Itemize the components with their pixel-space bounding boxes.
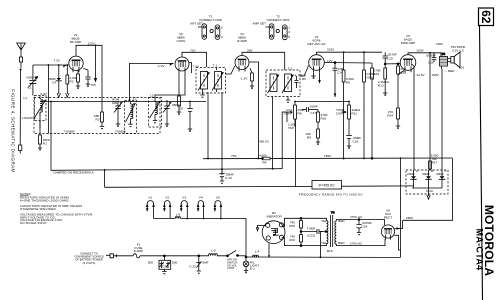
- svg-text:C24: C24: [362, 225, 368, 229]
- V5 grid resistors: [371, 63, 388, 159]
- svg-text:R6: R6: [346, 81, 350, 85]
- heater V2: [164, 201, 170, 219]
- wire T3 sec down to filter: [441, 69, 443, 170]
- wire V4 plate 215V line: [317, 52, 383, 54]
- svg-text:R12: R12: [374, 72, 380, 76]
- svg-text:CONNECT-ONS: CONNECT-ONS: [267, 18, 290, 22]
- connector ant plug: [19, 145, 22, 154]
- wire B+ right loop: [400, 158, 402, 257]
- svg-text:NO SIGNAL INPUT: NO SIGNAL INPUT: [20, 221, 47, 225]
- wire long left vertical to B-: [50, 102, 52, 171]
- svg-text:3: 3: [288, 30, 290, 34]
- svg-text:.5MF: .5MF: [202, 260, 209, 264]
- wire screen drop 75V: [95, 45, 97, 79]
- svg-text:OTHERWISE SPECIFIED.: OTHERWISE SPECIFIED.: [20, 207, 57, 211]
- svg-text:L-4: L-4: [255, 250, 260, 254]
- wire arrow to V1 grid: [63, 65, 67, 68]
- filament heaters V1-V5: [146, 201, 222, 219]
- wire V3 plate to T2: [242, 52, 285, 70]
- svg-text:DET-AVC-AF: DET-AVC-AF: [307, 42, 325, 46]
- svg-text:-12.5V: -12.5V: [416, 73, 426, 77]
- svg-text:40MF: 40MF: [436, 172, 444, 176]
- wire T1 grounds: [200, 89, 204, 99]
- svg-text:CONV: CONV: [177, 39, 187, 43]
- capacitor C22: [196, 255, 201, 275]
- wire B- damper line: [51, 169, 283, 171]
- svg-text:270V-AC: 270V-AC: [350, 215, 363, 219]
- svg-text:R17: R17: [432, 161, 438, 165]
- svg-text:T 1: T 1: [213, 63, 218, 67]
- node candohm to screen bus: [363, 158, 365, 160]
- wire antenna lead down: [19, 70, 21, 146]
- svg-text:215V: 215V: [327, 48, 335, 52]
- svg-text:R5: R5: [302, 77, 306, 81]
- svg-text:28V: 28V: [247, 48, 253, 52]
- svg-text:T3: T3: [442, 52, 446, 56]
- svg-text:R14: R14: [387, 114, 393, 118]
- wire B+ 250V vertical to filter: [429, 53, 431, 170]
- svg-text:V3: V3: [182, 196, 186, 200]
- wire V5 screen drop to filter: [413, 66, 415, 170]
- svg-text:C19: C19: [387, 56, 393, 60]
- svg-text:FIGURE 4. SCHEMATIC DIAGRAM: FIGURE 4. SCHEMATIC DIAGRAM: [11, 89, 16, 172]
- svg-text:455 KC: 455 KC: [259, 140, 270, 144]
- speaker LS1: [448, 52, 461, 68]
- svg-text:B: B: [431, 169, 433, 173]
- svg-text:20MF: 20MF: [407, 172, 415, 176]
- svg-text:155V: 155V: [324, 154, 332, 158]
- wire T4 secondary top to V6: [340, 220, 385, 226]
- svg-text:C16: C16: [428, 61, 434, 65]
- wire T2 bottoms down: [272, 97, 274, 169]
- svg-text:C18: C18: [353, 140, 359, 144]
- wire V2 screen stub: [189, 63, 192, 74]
- wire 75V-155V screen bus: [203, 157, 453, 160]
- svg-text:YEL: YEL: [321, 241, 327, 245]
- wire V6 output 250V: [395, 220, 403, 228]
- wire V2 plate to T1: [182, 52, 207, 67]
- V5 cathode resistor R14: [396, 71, 404, 129]
- svg-text:8 AMP: 8 AMP: [134, 249, 143, 253]
- wire V2 grid line: [130, 63, 174, 100]
- svg-text:V1: V1: [148, 196, 152, 200]
- svg-text:R3: R3: [96, 118, 100, 122]
- svg-text:V4: V4: [199, 196, 203, 200]
- wire bottom bus to T4: [246, 256, 401, 258]
- svg-text:AMP SET: AMP SET: [253, 22, 267, 26]
- battery connector text: [74, 252, 104, 265]
- svg-text:RF AMP: RF AMP: [70, 40, 82, 44]
- svg-text:TAP: TAP: [288, 126, 294, 130]
- resistor R1: [39, 121, 42, 149]
- svg-text:12V: 12V: [327, 59, 333, 63]
- svg-text:R8: R8: [298, 112, 302, 116]
- svg-text:C-13: C-13: [225, 176, 232, 180]
- power transformer T4: [320, 211, 340, 258]
- capacitor C4: [56, 65, 62, 97]
- svg-text:R10: R10: [321, 117, 327, 121]
- resistor candohm: [363, 52, 366, 158]
- wire T4 secondary bottom to V6: [340, 239, 385, 246]
- spark plate capacitors: [156, 255, 197, 276]
- svg-text:PWR AMP: PWR AMP: [401, 41, 416, 45]
- svg-text:CONT: CONT: [227, 266, 235, 270]
- node grid junctions: [48, 64, 50, 66]
- svg-text:R2: R2: [70, 80, 74, 84]
- svg-text:→ RED: → RED: [444, 69, 455, 73]
- output transformer T3: [440, 52, 448, 69]
- svg-text:R15: R15: [289, 224, 295, 228]
- svg-text:4: 4: [221, 35, 223, 39]
- svg-text:DAMPED ON RECEIVERS A: DAMPED ON RECEIVERS A: [54, 171, 95, 175]
- svg-text:BLK: BLK: [327, 249, 334, 253]
- wire audio return riser: [104, 170, 106, 188]
- wire V5 plate 200V to T3: [408, 53, 441, 56]
- svg-text:.002MF: .002MF: [426, 54, 437, 58]
- svg-text:RECT: RECT: [384, 216, 393, 220]
- svg-text:R11: R11: [352, 112, 358, 116]
- V4 diode output to volume: [324, 62, 372, 98]
- NOTES block: [20, 192, 93, 225]
- svg-text:L-5: L-5: [211, 249, 216, 253]
- capacitor cathode V1: [84, 69, 91, 87]
- capacitor C13 on 222 drop: [219, 169, 225, 185]
- svg-text:7.5V: 7.5V: [193, 65, 200, 69]
- capacitor C16: [187, 102, 193, 132]
- svg-text:C4: C4: [52, 81, 56, 85]
- svg-text:500: 500: [148, 261, 153, 265]
- svg-text:V5: V5: [216, 196, 220, 200]
- wire vol line: [295, 101, 349, 103]
- svg-text:NOM: NOM: [27, 76, 35, 80]
- trimmer cap osc2: [163, 100, 171, 126]
- svg-text:75V: 75V: [231, 154, 237, 158]
- wire V2 osc grid to L3: [155, 73, 185, 99]
- svg-text:72V: 72V: [190, 48, 196, 52]
- svg-text:C1: C1: [28, 86, 32, 90]
- wire vol wiper down: [282, 112, 287, 169]
- svg-text:LS1: LS1: [459, 66, 465, 70]
- svg-text:-1.2V: -1.2V: [240, 77, 248, 81]
- wire AVC bus: [40, 101, 206, 103]
- vibrator bottom to bus: [268, 243, 270, 256]
- svg-text:FREQUENCY RANGE 540 TO 1600 KC: FREQUENCY RANGE 540 TO 1600 KC: [299, 192, 364, 196]
- svg-text:R16: R16: [289, 238, 295, 242]
- svg-text:YEL: YEL: [321, 219, 327, 223]
- tube V4 6CR6 DET-AVC-AF: [307, 35, 325, 73]
- svg-text:VIBRATOR: VIBRATOR: [266, 215, 282, 219]
- svg-text:R13: R13: [378, 84, 384, 88]
- IF transformer T1: [196, 63, 226, 93]
- heater V5: [215, 201, 221, 219]
- svg-text:(6 VOLTS): (6 VOLTS): [83, 261, 96, 265]
- resistor 4,600 R4 in screen bus: [262, 157, 270, 160]
- tube V1 6BQ6 RF AMP: [69, 33, 83, 73]
- svg-text:230V: 230V: [436, 42, 444, 46]
- variable capacitor C1: [28, 65, 38, 96]
- tube V2 6BE6 CONV: [175, 32, 189, 73]
- svg-text:L2: L2: [133, 97, 137, 101]
- power plug: [106, 254, 117, 258]
- svg-text:T4: T4: [331, 211, 335, 215]
- capacitor C17 coupling: [302, 107, 318, 112]
- svg-text:C21: C21: [162, 264, 168, 268]
- resistor 15K R9: [316, 126, 320, 144]
- heater V3: [181, 201, 187, 219]
- pilot light E1: [243, 256, 249, 273]
- trimmer cap osc: [114, 102, 122, 127]
- svg-text:40MF: 40MF: [422, 172, 430, 176]
- wire V6 heater down to bus: [394, 235, 400, 250]
- volume control R8: [287, 102, 296, 128]
- capacitor C23: [301, 229, 323, 234]
- oscillator coil L2 in dashed box: [125, 101, 137, 134]
- capacitor tone C18: [346, 136, 352, 149]
- wire T1 sec to V3 grid: [217, 66, 235, 92]
- svg-text:R4: R4: [263, 160, 267, 164]
- svg-text:C17: C17: [311, 111, 317, 115]
- svg-text:.01MF: .01MF: [309, 105, 318, 109]
- TUNER dashed box: [34, 98, 160, 134]
- tube V3 6BD6 IF AMP: [235, 32, 249, 72]
- svg-text:500: 500: [172, 261, 177, 265]
- wire V1 cathode leg: [77, 71, 79, 75]
- buffer resistors R15 R16: [282, 217, 323, 246]
- svg-text:C-22: C-22: [189, 265, 196, 269]
- svg-text:250V: 250V: [406, 216, 414, 220]
- svg-text:C-20: C-20: [426, 189, 433, 193]
- svg-text:MA-CTA4: MA-CTA4: [475, 229, 485, 271]
- wire audio return box line: [105, 186, 414, 187]
- heater V1: [147, 201, 153, 219]
- svg-text:270V-AC: 270V-AC: [350, 242, 363, 246]
- svg-text:C8: C8: [179, 107, 183, 111]
- V2 cathode components: [177, 73, 181, 114]
- V4 cathode pins: [311, 72, 321, 83]
- svg-text:1: 1: [288, 25, 290, 29]
- page number 62 box: [479, 8, 494, 26]
- svg-text:165V: 165V: [432, 73, 440, 77]
- svg-text:2: 2: [221, 25, 223, 29]
- svg-text:62: 62: [479, 10, 493, 24]
- connector group T1 CONNECT-ONS: [190, 15, 223, 40]
- ground below R1: [38, 148, 42, 150]
- IF frequency box: [312, 181, 342, 190]
- capacitor C16 plate bypass: [432, 53, 437, 63]
- svg-text:CONT: CONT: [336, 112, 345, 116]
- svg-text:200V: 200V: [417, 49, 425, 53]
- resistor 470K R10: [317, 110, 320, 127]
- svg-text:L3: L3: [150, 94, 154, 98]
- connector group T2 CONNECT-ONS: [253, 15, 291, 40]
- right border rule: [480, 26, 483, 300]
- svg-text:IF=455 KC: IF=455 KC: [319, 184, 336, 188]
- svg-text:5: 5: [288, 35, 290, 39]
- wire T1 pri bottom down: [207, 92, 209, 159]
- svg-text:4,600: 4,600: [259, 153, 267, 157]
- capacitor C24 buffer: [356, 219, 361, 235]
- svg-text:ANT SET: ANT SET: [190, 22, 203, 26]
- svg-text:L-6: L-6: [176, 212, 181, 216]
- svg-text:R9: R9: [307, 136, 311, 140]
- svg-text:V2: V2: [165, 196, 169, 200]
- antenna: [17, 43, 26, 68]
- wire V1 grid line: [33, 64, 67, 66]
- svg-text:7.5MF: 7.5MF: [307, 227, 316, 231]
- svg-text:7.2V: 7.2V: [54, 59, 61, 63]
- V3 cathode resistor: [250, 68, 254, 88]
- tube V5 6AQ5 PWR AMP: [400, 34, 416, 72]
- svg-text:RED: RED: [338, 241, 345, 245]
- resistor R3: [100, 112, 104, 131]
- switch SW1: [227, 251, 246, 257]
- svg-text:K=ONE THOUSAND (1000) OHMS.: K=ONE THOUSAND (1000) OHMS.: [20, 198, 70, 202]
- svg-text:-1.2V: -1.2V: [157, 64, 165, 68]
- wire vol pot tap down: [295, 119, 297, 187]
- node antenna junction: [20, 69, 22, 71]
- svg-text:6.4V: 6.4V: [41, 92, 48, 96]
- svg-text:3.2V V.C.: 3.2V V.C.: [452, 48, 465, 52]
- svg-text:IF AMP: IF AMP: [237, 39, 247, 43]
- vibrator ground lead: [256, 225, 266, 230]
- resistor R cathode V1: [76, 74, 80, 88]
- tone control R11: [342, 102, 351, 136]
- resistor plate load 5,000: [342, 52, 345, 159]
- filter capacitor block dashed: [406, 169, 448, 199]
- IF transformer T2: [266, 66, 300, 96]
- svg-text:E-1: E-1: [250, 266, 255, 270]
- capacitor C19 coupling to V5: [383, 52, 401, 65]
- svg-text:(C23): (C23): [307, 234, 315, 238]
- vibrator B1: [256, 211, 285, 257]
- svg-text:75V: 75V: [91, 83, 97, 87]
- capacitor C2: [47, 65, 49, 134]
- svg-text:R1: R1: [43, 142, 47, 146]
- heater V4: [198, 201, 203, 219]
- wire V1 plate to B+: [76, 45, 102, 112]
- svg-text:TUNER: TUNER: [64, 129, 75, 133]
- rectifier tube V6 6X4: [381, 209, 394, 240]
- wire heater bus with coil L6: [154, 218, 176, 220]
- svg-text:L1: L1: [24, 96, 28, 100]
- wire V3 screen down: [249, 62, 259, 159]
- antenna coil L1 in dashed box: [35, 96, 47, 129]
- wire T2 sec to V4 grid: [300, 66, 309, 77]
- osc coil L3 in dashed box: [149, 98, 162, 128]
- resistor 470 grid stopper: [397, 64, 400, 108]
- resistor R2: [66, 65, 69, 97]
